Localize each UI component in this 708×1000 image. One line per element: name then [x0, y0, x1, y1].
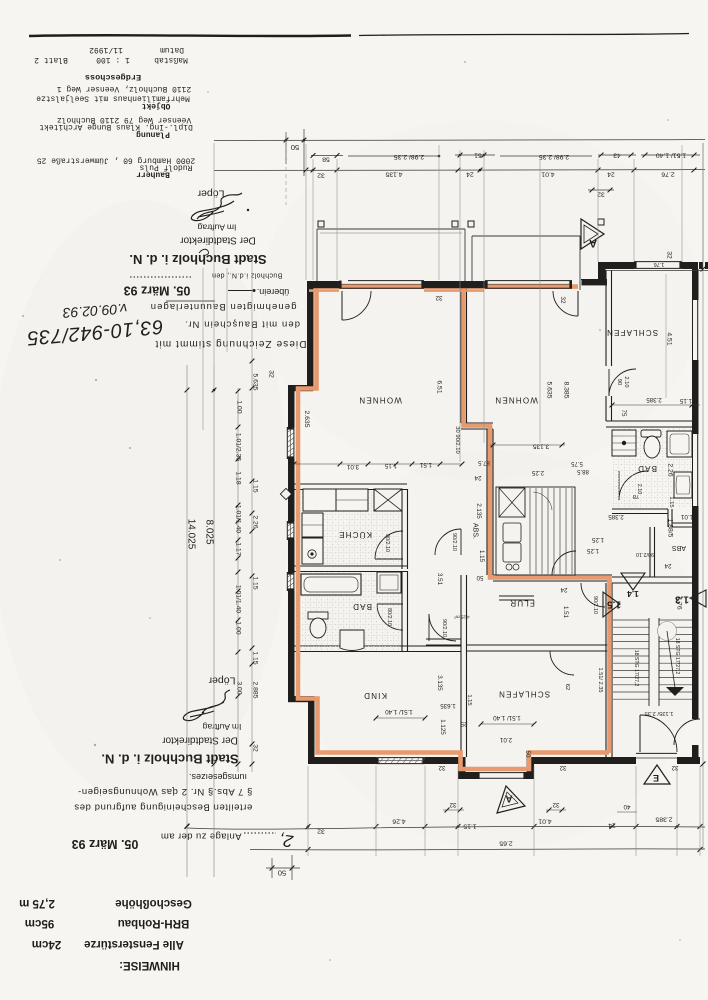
door balcony flat A with arc: [341, 291, 343, 320]
bad-left washer: [377, 572, 401, 593]
window left wall 1.01/1.40 kueche: [286, 521, 295, 540]
top chain row B segments and labels: [311, 155, 343, 157]
kind closet wall: [426, 638, 461, 640]
left vertical chain window dims x238: [237, 388, 239, 772]
left vertical chain 14.025: [186, 365, 188, 877]
exterior wall left middle: [288, 385, 295, 702]
flat B entry door arc (stair hall): [640, 715, 677, 752]
level marker 1.3 triangle: [690, 590, 706, 607]
svg-text:Maßstab: Maßstab: [154, 55, 188, 64]
level marker 1.5 triangle: [603, 592, 620, 617]
stamp1 Buchholz i.d.N. den + dotted line: [130, 276, 192, 278]
exterior wall bottom: [308, 757, 700, 764]
top chain extension lines: [305, 144, 307, 280]
stair core small circles: [506, 564, 512, 570]
photocopy smudges: [0, 200, 290, 800]
door corridor wall arc into flur: [552, 551, 576, 575]
svg-text:BAD: BAD: [637, 464, 657, 473]
bottom chain 50 box: [271, 858, 273, 878]
door balcony flat B with arc: [577, 291, 579, 316]
balcony posts: [318, 221, 324, 227]
exterior wall top (flat A + B): [307, 281, 581, 288]
orange under solid wall segments: [309, 289, 339, 292]
window right wall bad (2.26): [691, 434, 700, 506]
bottom chain labels: [306, 824, 311, 829]
left vertical chain x252: [251, 358, 253, 772]
bad-tr sink unit: [612, 430, 636, 456]
svg-text:95cm: 95cm: [25, 917, 54, 929]
stamp1 signature: [191, 193, 242, 221]
section marker A top: [581, 219, 604, 249]
kitchen stove crossed square: [374, 489, 402, 511]
svg-text:2,: 2,: [278, 830, 296, 851]
top chain row C labels: [304, 168, 309, 173]
stair core landing squares: [503, 523, 521, 542]
staircase direction arrow: [666, 687, 684, 696]
flat entrance door opening bottom wall (stair hall): [636, 751, 677, 765]
svg-text:Löper: Löper: [197, 188, 224, 200]
bottom chain extension lines: [307, 766, 309, 856]
left vertical chain 8.025: [213, 365, 215, 877]
top chain extra 32: [588, 189, 614, 191]
svg-text:32: 32: [252, 744, 259, 752]
schlafen-b north wall: [466, 644, 612, 646]
svg-text:32: 32: [671, 764, 678, 771]
kitchen / bad wall: [294, 565, 407, 567]
bad / kind wall: [294, 645, 461, 647]
top chain line C: [214, 170, 705, 171]
exterior wall right side: [692, 269, 699, 757]
svg-text:24cm: 24cm: [32, 938, 61, 950]
svg-text:1 : 100: 1 : 100: [96, 55, 130, 64]
stamp1 ueberein + dash: [228, 290, 252, 292]
redraw top wall solid segments over orange: [307, 281, 339, 288]
svg-text:Erdgeschoss: Erdgeschoss: [85, 72, 141, 82]
door schlafen-tr arc: [609, 369, 636, 396]
entrance recess walls: [458, 750, 534, 782]
abs-tr west wall: [649, 527, 651, 577]
kitchen sink unit: [302, 538, 323, 564]
schlafen-tr west wall lower segment: [605, 396, 607, 421]
door bad-left arc: [377, 604, 403, 630]
staircase treads right flight: [659, 619, 692, 621]
svg-text:Blatt 2: Blatt 2: [34, 55, 68, 64]
vent diamond marker left wall: [280, 488, 291, 499]
stair core crossed shaft: [499, 488, 525, 517]
svg-text:2.76: 2.76: [661, 171, 674, 178]
svg-text:1.01: 1.01: [680, 513, 693, 520]
door kitchen arc: [375, 531, 403, 559]
exterior wall upper right (y262): [605, 262, 698, 269]
section marker A bottom: [497, 786, 525, 813]
bad-left toilet: [308, 612, 328, 619]
balcony door opening flat A: [339, 279, 348, 289]
stair core treads: [529, 488, 531, 574]
window upper right wall (1.76): [634, 260, 682, 270]
exterior wall left upper: [307, 281, 314, 391]
orange highlight main envelope: [298, 287, 609, 769]
door bad-tr arc: [619, 471, 648, 500]
upper wall inner face line: [605, 270, 708, 272]
balcony flat A outline: [317, 228, 465, 230]
bad-tr shelf: [641, 430, 661, 437]
stair hall west wall: [605, 583, 607, 757]
bad east wall: [401, 571, 403, 651]
top chain line A: [214, 140, 705, 141]
bad-left bathtub: [301, 574, 361, 595]
svg-text:erteilten Bescheinigung aufgru: erteilten Bescheinigung aufgrund des: [74, 802, 252, 813]
party wall upper (between WOHNEN flats): [460, 288, 462, 423]
svg-text:58: 58: [322, 156, 330, 163]
flur wardrobe stub: [499, 595, 534, 597]
svg-text:Datum: Datum: [160, 45, 184, 54]
kitchen counter row: [303, 489, 336, 511]
svg-text:2.385: 2.385: [655, 816, 672, 823]
window top wall flat A (2.98/2.35): [339, 279, 424, 289]
bad-tr bathtub: [674, 472, 692, 498]
door kind arc: [429, 614, 456, 641]
window left wall 1.01/1.40 bad: [286, 572, 295, 591]
door schlafen-b arc: [550, 651, 574, 675]
balcony door opening flat B top wall right end: [572, 280, 582, 289]
stamp1 small script mark: [199, 249, 209, 255]
bad-left bidet-sink: [340, 630, 364, 651]
svg-text:Objekt: Objekt: [141, 101, 170, 110]
corridor wall horizontal flat B: [493, 574, 612, 576]
svg-text:ABS: ABS: [672, 544, 686, 551]
svg-text:2,75 m: 2,75 m: [19, 897, 55, 909]
svg-text:BRH-Rohbau: BRH-Rohbau: [118, 917, 190, 929]
kitchen / wohnen wall: [294, 483, 407, 485]
bad-tr shower: [667, 431, 692, 457]
staircase stringer: [648, 618, 650, 706]
window bottom wall kind (1.51/1.40): [376, 756, 425, 765]
svg-text:3.01: 3.01: [346, 463, 359, 470]
svg-text:Planung: Planung: [136, 130, 170, 139]
section marker E bottom: [644, 765, 670, 784]
stair hall top wall: [612, 576, 692, 578]
door party wall flat A with arc: [460, 529, 468, 555]
entrance door in recess (2.01): [477, 771, 526, 780]
schlafen-tr / bad-tr wall: [606, 420, 692, 422]
bad-tr toilet: [644, 436, 660, 458]
kitchen east wall: [401, 489, 403, 569]
svg-text:11/1992: 11/1992: [89, 45, 123, 54]
exterior wall left jog upper: [288, 385, 313, 391]
door corridor to stair hall arc: [581, 583, 605, 607]
extension lines crossing stamp1: [202, 268, 204, 430]
bottom chain line E: [250, 849, 705, 850]
orange highlight party + corridor walls: [464, 288, 610, 753]
stamp2 signature: [183, 690, 230, 721]
balcony flat B outline: [472, 235, 580, 237]
bad-left tile hatch: [296, 572, 401, 650]
svg-text:24: 24: [608, 822, 616, 829]
svg-text:1.15: 1.15: [679, 397, 692, 404]
svg-text:50: 50: [278, 868, 286, 877]
bottom chain line D: [187, 826, 705, 829]
svg-text:2110 Buchholz, Veenser Weg 1: 2110 Buchholz, Veenser Weg 1: [57, 84, 192, 93]
window left wall 1.01/2.35: [286, 427, 295, 459]
staircase treads left flight: [613, 619, 649, 621]
svg-text:Anlage zu der am: Anlage zu der am: [161, 831, 242, 842]
svg-text:05. März 93: 05. März 93: [72, 837, 139, 851]
svg-text:32: 32: [317, 828, 325, 835]
svg-text:HINWEISE:: HINWEISE:: [119, 959, 180, 971]
staircase start circle: [658, 622, 677, 641]
wall mid vertical (WOHNEN-B / stair core): [486, 429, 488, 575]
exterior wall left jog lower: [288, 696, 314, 702]
window sill hatches: [288, 428, 294, 457]
exterior wall upper right dashes at edge: [699, 262, 703, 269]
right vertical chain: [702, 143, 704, 850]
door opening right wall lower: [691, 719, 700, 745]
window right wall upper (schlafen): [691, 300, 700, 360]
svg-text:2.26: 2.26: [667, 463, 674, 476]
svg-text:1.51/ 1.40: 1.51/ 1.40: [656, 152, 686, 159]
stair core outline: [496, 487, 575, 575]
svg-text:Bauherr: Bauherr: [136, 170, 170, 179]
svg-text:1.88/5: 1.88/5: [667, 519, 674, 538]
stair core arc detail: [533, 492, 552, 510]
door right wall lower arc: [674, 719, 700, 745]
level marker 1.4 triangle: [621, 573, 645, 590]
scan border line top: [29, 34, 351, 37]
top chain 50 box: [285, 132, 287, 164]
svg-text:2.10: 2.10: [636, 484, 642, 495]
kitchen fridge units: [302, 513, 323, 537]
svg-text:50: 50: [291, 143, 299, 152]
svg-text:Alle Fensterstürze: Alle Fensterstürze: [84, 938, 184, 950]
svg-text:Geschoßhöhe: Geschoßhöhe: [115, 897, 192, 909]
bottom small 32 dims near wall: [443, 809, 464, 811]
exterior wall left lower: [308, 696, 315, 764]
bad-tr tile hatch: [612, 428, 691, 508]
scan speckles: [94, 744, 96, 746]
party wall lower (KIND / SCHLAFEN): [460, 575, 462, 757]
kitchen tile hatch: [299, 490, 401, 565]
redraw window inner lines over orange: [339, 287, 424, 289]
bad-tr south walls stepped: [612, 508, 668, 510]
exterior wall step top-right: [581, 279, 607, 285]
party wall jog: [461, 422, 493, 424]
svg-text:1.15: 1.15: [668, 496, 674, 507]
wohnen-b east wall thin (schlafen-tr west): [605, 270, 607, 366]
window top wall flat B (2.98/2.35): [485, 279, 572, 289]
